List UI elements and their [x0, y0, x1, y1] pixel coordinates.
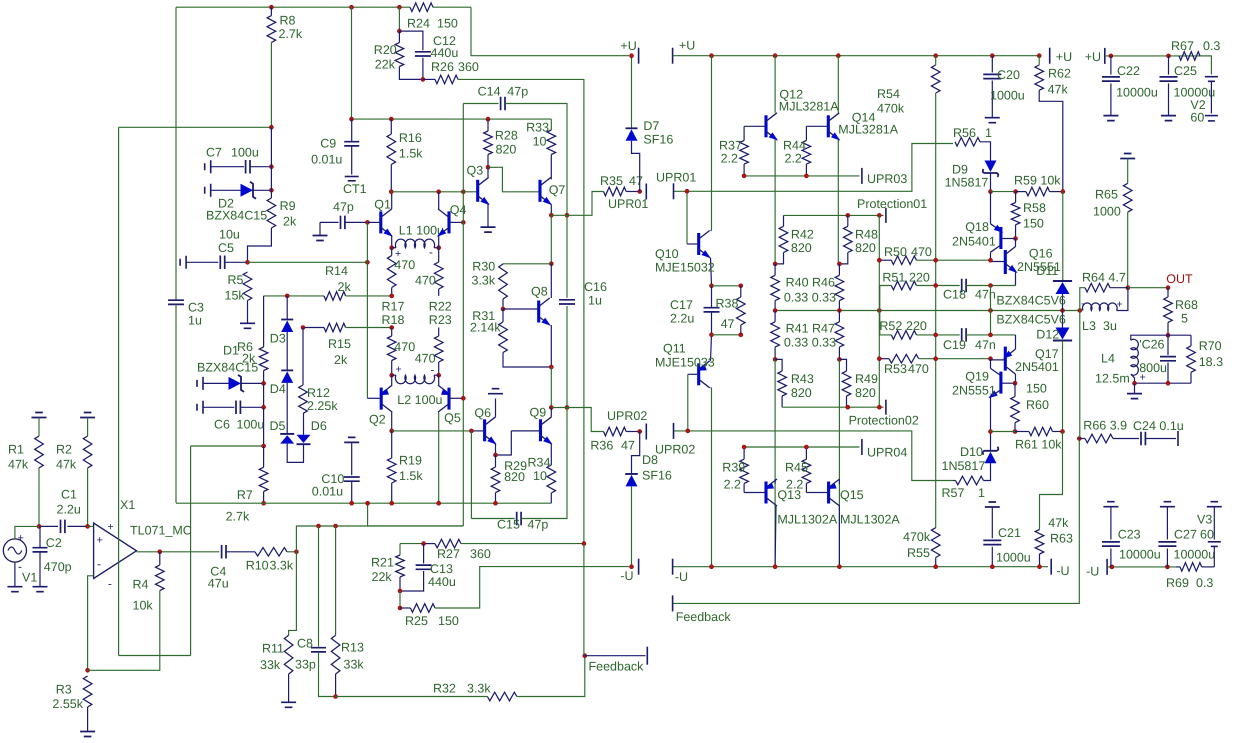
node +U C20: [990, 54, 994, 58]
svg-text:Q16: Q16: [1029, 247, 1053, 261]
svg-text:R21: R21: [371, 556, 394, 570]
transistor Q17 2N5401: [1004, 347, 1007, 371]
resistor R19 1.5k: [391, 431, 393, 458]
resistor R42 820: [783, 215, 785, 226]
svg-text:BZX84C15: BZX84C15: [197, 361, 258, 375]
svg-text:Q11: Q11: [663, 342, 686, 356]
node Q6 base: [469, 429, 473, 433]
resistor R64 4.7: [1080, 288, 1085, 311]
svg-text:Q10: Q10: [655, 247, 679, 261]
node -U Q11: [710, 565, 714, 569]
svg-text:Q19: Q19: [965, 370, 989, 384]
svg-text:BZX84C5V6: BZX84C5V6: [996, 294, 1066, 308]
node R13 top: [334, 524, 338, 528]
svg-text:R35: R35: [600, 174, 623, 188]
svg-text:R26: R26: [431, 60, 454, 74]
terminal UPR02 right: [673, 423, 675, 439]
svg-text:R51: R51: [882, 271, 905, 285]
terminal UPR01 right: [673, 183, 675, 199]
svg-text:47: 47: [621, 439, 635, 453]
svg-text:UPR01: UPR01: [656, 171, 696, 185]
wire rail feed C9: [351, 7, 353, 119]
svg-text:R45: R45: [785, 461, 808, 475]
resistor R33 10: [550, 119, 552, 130]
node rail out: [1078, 309, 1082, 313]
svg-text:R22: R22: [429, 300, 452, 314]
svg-text:C14: C14: [478, 85, 501, 99]
resistor R46 0.33: [835, 275, 844, 300]
node R58 top: [1014, 190, 1018, 194]
svg-text:C20: C20: [997, 68, 1020, 82]
node C25: [1167, 54, 1171, 58]
capacitor C3 1u: [168, 300, 184, 304]
node R68 bottom: [1166, 333, 1170, 337]
zener D11 BZX84C5V6: [1053, 280, 1072, 282]
svg-text:470: 470: [908, 362, 929, 376]
inductor L1 100u: [390, 246, 394, 250]
svg-text:X1: X1: [120, 498, 135, 512]
node UPR04 R39: [742, 445, 746, 449]
svg-text:Q8: Q8: [531, 285, 548, 299]
node Q5 base: [461, 396, 465, 400]
svg-text:C24 0.1u: C24 0.1u: [1133, 419, 1184, 433]
node R51/C18: [934, 284, 938, 288]
transistor Q3: [476, 180, 479, 202]
svg-text:R27: R27: [437, 547, 460, 561]
node rail R20: [397, 5, 401, 9]
resistor R7 2.7k: [263, 446, 265, 467]
svg-text:1u: 1u: [188, 314, 202, 328]
node R43 top: [773, 357, 777, 361]
wire D9 row: [991, 191, 1016, 193]
svg-text:R48: R48: [855, 228, 878, 242]
svg-text:+U: +U: [679, 39, 695, 53]
svg-text:Q4: Q4: [450, 203, 467, 217]
resistor R45 2.2: [802, 459, 811, 483]
node +U Q10: [710, 54, 714, 58]
capacitor C5 10u: [180, 256, 186, 269]
svg-text:820: 820: [496, 143, 517, 157]
svg-text:150: 150: [1026, 382, 1047, 396]
wire C7-D2-R9: [270, 127, 272, 198]
node R53 R54col: [934, 357, 938, 361]
resistor R11 33k: [284, 635, 293, 674]
wire Q1 base column: [366, 222, 368, 398]
zener D1 BZX84C15: [197, 377, 203, 390]
node -U Q13: [773, 565, 777, 569]
node Q4 base: [461, 220, 465, 224]
node R52/C19: [934, 333, 938, 337]
wire C19 row to output rail: [990, 311, 992, 335]
svg-text:UPR01: UPR01: [608, 197, 648, 211]
svg-text:-: -: [431, 365, 435, 377]
battery V3 60: [1207, 502, 1222, 507]
wire output rail: [775, 310, 1080, 312]
svg-text:Q15: Q15: [840, 488, 864, 502]
node C22: [1109, 54, 1113, 58]
svg-text:2N5551: 2N5551: [952, 384, 996, 398]
terminal +U right: [672, 48, 674, 64]
resistor R6 2k: [259, 347, 268, 371]
wire Q13 base R39: [744, 492, 766, 494]
resistor R23 470: [434, 336, 443, 362]
svg-text:R23: R23: [429, 313, 452, 327]
node Q7 emitter: [549, 213, 553, 217]
node R17 bottom: [390, 294, 394, 298]
wire feedback left rail: [119, 126, 272, 128]
svg-text:150: 150: [1023, 217, 1044, 231]
terminal UPR04: [861, 439, 863, 455]
svg-text:12.5m: 12.5m: [1095, 372, 1130, 386]
resistor R60 150: [1014, 383, 1016, 396]
resistor R12 2.25k: [299, 385, 308, 413]
resistor R68 5: [1167, 288, 1169, 297]
svg-text:R18: R18: [382, 313, 405, 327]
transistor Q4: [447, 211, 450, 233]
svg-text:R15: R15: [328, 337, 351, 351]
svg-text:C1: C1: [61, 488, 77, 502]
transistor Q9: [539, 419, 542, 441]
node C27: [1165, 565, 1169, 569]
resistor R65 1000: [1123, 183, 1132, 212]
svg-text:R64 4.7: R64 4.7: [1082, 271, 1126, 285]
svg-text:R17: R17: [382, 300, 405, 314]
svg-text:47n: 47n: [975, 338, 996, 352]
diode D9 1N5817: [990, 157, 992, 161]
svg-text:UPR02: UPR02: [655, 443, 695, 457]
wire R61 row left: [991, 431, 1016, 433]
node +U Q14: [836, 54, 840, 58]
svg-text:R39: R39: [722, 461, 745, 475]
resistor R2 47k: [83, 436, 92, 468]
resistor R24 150: [410, 3, 433, 12]
node D2: [269, 188, 273, 192]
svg-text:60: 60: [1200, 528, 1214, 542]
wire OUT row: [1128, 287, 1168, 289]
node C6: [262, 405, 266, 409]
svg-text:47: 47: [721, 317, 735, 331]
wire UPR03 row: [744, 175, 859, 177]
svg-text:22k: 22k: [372, 570, 393, 584]
ground 47p: [313, 236, 328, 241]
node R61 right: [1061, 430, 1065, 434]
svg-text:R4: R4: [133, 578, 149, 592]
svg-text:Q3: Q3: [467, 164, 484, 178]
svg-text:C2: C2: [46, 536, 62, 550]
svg-text:-U: -U: [1086, 565, 1099, 579]
svg-text:-U: -U: [1056, 564, 1069, 578]
node Protection01 879: [877, 213, 881, 217]
node -U R63: [1038, 565, 1042, 569]
capacitor C22 10000u: [1110, 56, 1112, 75]
resistor R22 470: [434, 262, 443, 289]
wire protection column: [878, 215, 880, 407]
resistor R25 150: [399, 591, 401, 608]
node R50 left: [877, 258, 881, 262]
node C17 bottom: [710, 333, 714, 337]
svg-text:2k: 2k: [334, 353, 348, 367]
capacitor C8 33p: [318, 526, 320, 647]
node OUT: [1166, 286, 1170, 290]
wire C6 node to bottom row: [263, 407, 265, 445]
svg-text:SF16: SF16: [642, 469, 672, 483]
node C4/R10: [294, 550, 298, 554]
svg-text:R65: R65: [1095, 188, 1118, 202]
ground R5: [240, 323, 255, 328]
svg-text:L2 100u: L2 100u: [397, 393, 442, 407]
terminal -U right: [672, 559, 674, 575]
svg-text:-U: -U: [620, 569, 633, 583]
resistor R62 47k: [1038, 56, 1040, 65]
svg-text:R57: R57: [942, 486, 965, 500]
svg-text:2.7k: 2.7k: [279, 27, 303, 41]
node Q1 collector: [389, 190, 393, 194]
svg-text:Protection02: Protection02: [849, 414, 919, 428]
svg-text:R25: R25: [405, 614, 428, 628]
resistor R47 0.33: [835, 322, 844, 347]
node UPR02/Q11: [686, 429, 690, 433]
ground Q6 collector: [488, 389, 503, 394]
wire Q3 base: [463, 191, 477, 193]
resistor R59 10k: [1016, 191, 1026, 193]
resistor R32 3.3k: [336, 696, 488, 698]
wire inverting input: [88, 576, 94, 671]
svg-text:R28: R28: [495, 129, 518, 143]
svg-text:R55: R55: [907, 546, 930, 560]
wire R3 node to R4: [88, 591, 160, 671]
node C19 rail tap: [989, 333, 993, 337]
transistor Q6: [483, 419, 486, 441]
svg-text:TL071_MC: TL071_MC: [130, 524, 192, 538]
svg-text:1u: 1u: [588, 294, 602, 308]
svg-text:R62: R62: [1048, 67, 1071, 81]
svg-text:47n: 47n: [975, 288, 996, 302]
wire Q12 base R37: [744, 125, 766, 127]
svg-text:R7: R7: [237, 488, 253, 502]
svg-text:47k: 47k: [1048, 516, 1069, 530]
node R27 right: [582, 542, 586, 546]
svg-text:R11: R11: [262, 642, 284, 656]
svg-text:C13: C13: [430, 562, 453, 576]
svg-text:D6: D6: [311, 419, 327, 433]
resistor R35 47: [604, 187, 627, 196]
resistor R55 470k: [931, 528, 940, 558]
svg-text:R43: R43: [791, 372, 814, 386]
svg-text:2.2u: 2.2u: [670, 312, 694, 326]
svg-text:R5: R5: [228, 273, 244, 287]
svg-text:+: +: [1117, 299, 1123, 311]
node C5/R5: [246, 260, 250, 264]
terminal +U rail end: [1049, 48, 1051, 64]
node R8 bottom: [269, 125, 273, 129]
svg-text:R40 R46: R40 R46: [786, 276, 835, 290]
svg-text:R16: R16: [399, 131, 422, 145]
node R66 tap: [1077, 437, 1081, 441]
svg-text:470p: 470p: [44, 560, 72, 574]
svg-text:BZX84C15: BZX84C15: [206, 209, 267, 223]
wire Q14 base R44: [806, 125, 828, 127]
svg-text:2.2: 2.2: [724, 478, 741, 492]
svg-text:220: 220: [906, 319, 927, 333]
wire ground bus: [176, 502, 551, 504]
wire Q11 base: [688, 373, 699, 375]
svg-text:1.5k: 1.5k: [399, 469, 423, 483]
svg-text:470: 470: [415, 352, 436, 366]
svg-text:D5: D5: [270, 419, 286, 433]
node R21/C13 bottom: [398, 589, 402, 593]
wire to input row B: [296, 526, 463, 552]
svg-text:0.01u: 0.01u: [311, 153, 342, 167]
transistor Q5: [447, 388, 450, 410]
resistor R70 18.3: [1190, 335, 1192, 346]
node bottom row: [262, 444, 266, 448]
node R65 bottom: [1126, 286, 1130, 290]
node D1/R6: [262, 381, 266, 385]
svg-text:R34: R34: [528, 456, 551, 470]
node UPR04 R45: [804, 445, 808, 449]
diode D6: [297, 435, 311, 443]
diode D10 1N5817: [985, 452, 997, 464]
resistor R3 2.55k: [83, 676, 92, 707]
resistor R10 3.3k: [255, 548, 287, 557]
svg-text:R33: R33: [526, 121, 549, 135]
node C8 top: [317, 524, 321, 528]
svg-text:R70: R70: [1199, 339, 1222, 353]
node R18 top: [390, 326, 394, 330]
node R30/R31/Q8 base: [501, 307, 505, 311]
svg-text:D12: D12: [1036, 328, 1059, 342]
svg-text:2.2: 2.2: [721, 152, 738, 166]
svg-text:10: 10: [533, 469, 547, 483]
svg-text:MJL1302A: MJL1302A: [840, 513, 900, 527]
transistor Q12 MJL3281A: [764, 115, 767, 137]
resistor R18 470: [387, 336, 396, 361]
wire C15 left lead: [470, 431, 472, 519]
svg-text:R69: R69: [1166, 576, 1189, 590]
svg-text:R52: R52: [879, 319, 902, 333]
capacitor C7 100u: [205, 160, 211, 173]
svg-text:Q1: Q1: [374, 198, 391, 212]
node UPR03 R37: [742, 174, 746, 178]
terminal +U left: [638, 48, 640, 64]
svg-text:L1 100u: L1 100u: [399, 224, 444, 238]
node R38 top: [739, 284, 743, 288]
svg-text:Feedback: Feedback: [676, 610, 732, 624]
ground above R1: [32, 413, 47, 418]
svg-text:2.2u: 2.2u: [57, 503, 81, 517]
svg-text:47k: 47k: [56, 458, 77, 472]
resistor R39 2.2: [740, 459, 749, 483]
svg-text:R32: R32: [433, 682, 456, 696]
svg-text:R59 10k: R59 10k: [1014, 174, 1061, 188]
svg-text:820: 820: [855, 241, 876, 255]
svg-text:47p: 47p: [333, 200, 354, 214]
resistor R66 3.9: [1079, 438, 1085, 440]
resistor R20 22k: [398, 7, 400, 31]
capacitor C12 440u: [399, 31, 423, 50]
svg-text:470: 470: [415, 274, 436, 288]
node R46 top: [837, 262, 841, 266]
node rail C9 top: [350, 117, 354, 121]
svg-text:R12: R12: [307, 386, 330, 400]
terminal UPR03: [861, 168, 863, 184]
svg-text:800u: 800u: [1139, 361, 1167, 375]
svg-text:MJE15033: MJE15033: [655, 356, 715, 370]
svg-text:2.2: 2.2: [785, 152, 802, 166]
wire -U PSU rail: [1107, 566, 1176, 568]
svg-text:R66 3.9: R66 3.9: [1083, 419, 1127, 433]
node rail R8: [269, 5, 273, 9]
node +U R62: [1037, 54, 1041, 58]
svg-text:R42: R42: [791, 228, 814, 242]
svg-text:D3: D3: [270, 332, 286, 346]
svg-text:Q17: Q17: [1035, 347, 1059, 361]
zener D2 BZX84C15: [205, 184, 211, 197]
capacitor C1 2.2u: [39, 525, 58, 527]
wire bottom row 446: [191, 445, 264, 447]
svg-text:R19: R19: [399, 454, 422, 468]
resistor R29 820: [495, 455, 497, 467]
svg-text:R36: R36: [590, 439, 613, 453]
capacitor C18 47n: [962, 279, 966, 293]
svg-text:UPR02: UPR02: [607, 409, 647, 423]
resistor R69 0.3: [1180, 563, 1202, 572]
svg-text:0.01u: 0.01u: [312, 484, 343, 498]
svg-text:Q7: Q7: [549, 183, 566, 197]
svg-text:470: 470: [394, 340, 415, 354]
svg-text:R61 10k: R61 10k: [1015, 438, 1062, 452]
svg-text:150: 150: [437, 17, 458, 31]
svg-text:'C26: 'C26: [1139, 338, 1164, 352]
svg-text:1: 1: [985, 126, 992, 140]
node R29 bottom: [494, 501, 498, 505]
capacitor C4 47u: [222, 545, 226, 559]
diode D8 SF16: [632, 432, 640, 474]
diode D4: [281, 371, 293, 383]
resistor R57 1: [956, 476, 984, 485]
node zobel L4: [1133, 381, 1137, 385]
svg-text:R63: R63: [1050, 532, 1073, 546]
svg-text:10: 10: [533, 135, 547, 149]
ground C2: [33, 587, 48, 592]
svg-text:33k: 33k: [260, 658, 281, 672]
op-amp X1 TL071_MC: [94, 523, 137, 579]
svg-text:820: 820: [855, 386, 876, 400]
node inverting: [86, 668, 90, 672]
capacitor C16 1u: [559, 300, 575, 304]
node +U Q12: [773, 54, 777, 58]
svg-text:+U: +U: [1056, 50, 1072, 64]
node R7 bottom: [262, 501, 266, 505]
svg-text:Q5: Q5: [444, 411, 461, 425]
svg-text:C17: C17: [670, 298, 693, 312]
svg-text:Q6: Q6: [474, 406, 491, 420]
svg-text:R41 R47: R41 R47: [786, 322, 835, 336]
terminal -U rail end: [1050, 559, 1052, 575]
ground above R65: [1120, 154, 1135, 159]
wire Q15 base R45: [806, 492, 828, 494]
wire Q7 emitter column to R30: [550, 215, 552, 263]
resistor R36 47: [604, 427, 627, 436]
wire R9 to C5 node: [248, 228, 272, 262]
svg-text:D7: D7: [643, 119, 659, 133]
resistor R14 2k: [264, 295, 324, 297]
node R54 col R50: [934, 258, 938, 262]
svg-text:47p: 47p: [528, 518, 549, 532]
wire C5 row to Q1 base column: [248, 261, 368, 263]
svg-text:R1: R1: [8, 443, 24, 457]
node C14/Q3 base: [461, 190, 465, 194]
